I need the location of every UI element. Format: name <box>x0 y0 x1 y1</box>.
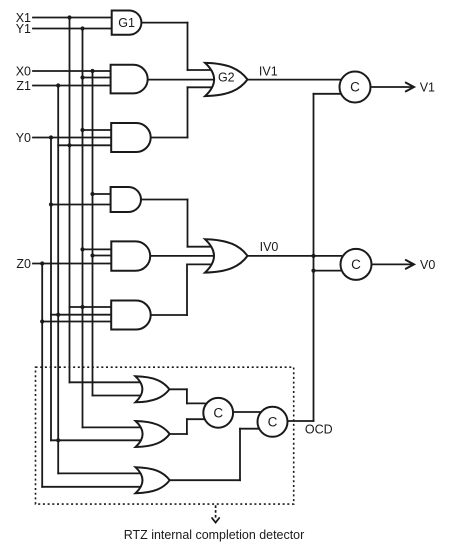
svg-text:IV1: IV1 <box>259 64 278 78</box>
svg-text:OCD: OCD <box>305 422 333 436</box>
svg-text:C: C <box>268 414 278 429</box>
svg-text:IV0: IV0 <box>260 240 279 254</box>
svg-text:V1: V1 <box>420 80 435 94</box>
svg-text:V0: V0 <box>420 258 435 272</box>
svg-text:Y1: Y1 <box>16 22 31 36</box>
svg-text:Z1: Z1 <box>16 79 31 93</box>
svg-text:RTZ internal completion detect: RTZ internal completion detector <box>124 527 305 542</box>
svg-text:C: C <box>350 80 360 95</box>
svg-text:Z0: Z0 <box>16 257 31 271</box>
svg-text:C: C <box>351 257 361 272</box>
svg-text:G1: G1 <box>118 16 135 30</box>
svg-text:X0: X0 <box>16 65 31 79</box>
svg-text:C: C <box>213 405 223 420</box>
svg-text:Y0: Y0 <box>16 131 31 145</box>
svg-text:G2: G2 <box>218 71 235 85</box>
